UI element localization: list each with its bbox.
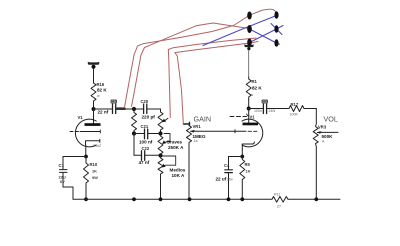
red annotation wires	[125, 9, 277, 123]
node cathode junction V1b	[240, 155, 244, 159]
wire C20 corner down	[160, 109, 162, 112]
resistor R17	[289, 106, 304, 112]
node R10 ground	[84, 197, 88, 201]
svg-text:1a: 1a	[194, 139, 198, 143]
resistor R11	[272, 197, 288, 203]
wire blue X arm 2 (L-bot to R-mid extended)	[250, 26, 284, 43]
svg-text:27: 27	[277, 204, 281, 208]
wire cathode down	[85, 145, 87, 157]
svg-text:100 nf: 100 nf	[139, 139, 153, 144]
svg-text:w: w	[97, 94, 100, 98]
wire node B down	[133, 134, 135, 156]
tiny text 24hZ	[93, 144, 102, 148]
node plate V1a	[92, 107, 96, 111]
switch contact dots	[247, 11, 278, 47]
capacitor C4	[216, 157, 233, 200]
resistor R5	[240, 157, 245, 200]
Graves wiper loop	[164, 134, 171, 144]
svg-text:VR3: VR3	[318, 125, 327, 130]
contact L3	[247, 39, 252, 47]
svg-text:R10: R10	[90, 162, 98, 167]
tube V1b cathode	[242, 142, 254, 149]
node orphan bus dot	[132, 197, 136, 201]
tube V1a grid	[70, 130, 100, 133]
wire red C (treble wiper to switch L-bot overshoot)	[168, 38, 256, 118]
wire supply to R16	[93, 69, 95, 82]
blue annotation wires	[203, 16, 283, 46]
svg-text:24N: 24N	[269, 109, 276, 113]
wire cathode down	[241, 149, 243, 157]
svg-text:V1: V1	[250, 115, 256, 120]
svg-text:V1: V1	[78, 115, 84, 120]
svg-text:100n: 100n	[254, 109, 262, 113]
wire R17 to VOL	[304, 108, 316, 110]
svg-text:22 nf: 22 nf	[98, 110, 109, 115]
svg-text:C1: C1	[59, 163, 65, 168]
svg-text:Medios: Medios	[170, 167, 186, 172]
GAIN title	[194, 115, 212, 124]
svg-text:100K: 100K	[290, 113, 299, 117]
contact R3	[274, 39, 278, 47]
label Medios 10K A	[170, 167, 186, 178]
wire node to C9	[94, 108, 113, 110]
contact L1	[247, 12, 252, 20]
wire blue long diagonal (R-top to mid circuit)	[203, 16, 277, 46]
GAIN wiper	[191, 130, 195, 133]
svg-text:1K: 1K	[246, 169, 251, 174]
node cathode junction	[84, 155, 88, 159]
wire red D (GAIN top to switch L-bot)	[175, 42, 258, 124]
treble wiper	[164, 118, 169, 121]
svg-text:220 pf: 220 pf	[142, 114, 156, 119]
potentiometer treble (z1)	[158, 112, 163, 134]
wire blue X arm 1 (L-mid to R-bot)	[250, 29, 280, 44]
node plate V1b	[247, 107, 251, 111]
supply terminal left	[88, 62, 99, 69]
contact R2	[274, 25, 278, 33]
svg-text:C3: C3	[263, 100, 267, 104]
tube V1b plate	[248, 109, 250, 124]
wire R1 to plate node	[248, 100, 250, 109]
tube V1a circle	[75, 119, 96, 147]
capacitor C3	[262, 100, 276, 114]
wire red A (C9 node to switch L-top)	[125, 17, 248, 108]
svg-text:Graves: Graves	[167, 139, 183, 144]
svg-text:500K: 500K	[322, 134, 334, 139]
svg-text:R1: R1	[252, 79, 258, 84]
wire red hook (L-top to R-top)	[252, 9, 277, 14]
label R16 82K	[97, 82, 108, 98]
tone stack: slope resistor	[132, 109, 137, 134]
contact R1	[274, 11, 278, 19]
node VOL ground	[314, 197, 318, 201]
svg-text:R16: R16	[97, 82, 105, 87]
wire C9 to tone node (with dark blob)	[116, 108, 134, 110]
VOL wiper	[317, 131, 321, 133]
potentiometer Graves (z2)	[158, 136, 163, 156]
wire C1 to bus	[63, 187, 73, 199]
wire GAIN wiper to V1b grid	[194, 130, 246, 133]
wire to C1	[63, 156, 86, 158]
svg-text:9W: 9W	[92, 175, 98, 180]
resistor R10	[84, 157, 89, 200]
wire R16 to plate node	[93, 103, 95, 109]
label Graves 250K A	[167, 139, 185, 150]
svg-text:VR1: VR1	[193, 124, 202, 129]
resistor R1	[246, 77, 251, 100]
svg-text:82 K: 82 K	[97, 88, 107, 93]
wire red B (tone node to switch L-mid)	[132, 23, 248, 107]
tube V1a plate	[93, 109, 95, 124]
VOL title	[324, 115, 338, 124]
wire plate node to C3	[249, 108, 263, 110]
wire blue X short stroke at R-mid	[271, 24, 282, 35]
svg-text:6V: 6V	[60, 179, 65, 184]
svg-text:1K: 1K	[92, 169, 97, 174]
potentiometer VR3 VOL	[313, 109, 318, 200]
node Medios ground	[159, 197, 163, 201]
svg-text:250K A: 250K A	[168, 145, 184, 150]
Medios wiper loop	[163, 156, 176, 167]
svg-text:C9: C9	[112, 100, 116, 104]
node C22 right	[158, 153, 162, 157]
svg-text:C22: C22	[142, 146, 150, 151]
resistor R16	[91, 81, 96, 103]
svg-text:w: w	[251, 93, 254, 97]
svg-text:47 nf: 47 nf	[139, 160, 150, 165]
node A top of tone stack	[132, 107, 136, 111]
svg-text:R17: R17	[291, 102, 299, 107]
contact L2	[247, 25, 252, 33]
node B	[132, 131, 136, 135]
wire to C4	[229, 156, 243, 158]
node C4 ground	[227, 197, 231, 201]
capacitor C20	[134, 99, 161, 119]
wire supply to R1	[248, 50, 250, 77]
svg-text:25v: 25v	[227, 177, 233, 181]
svg-text:R5: R5	[245, 162, 251, 167]
svg-text:10K A: 10K A	[172, 173, 186, 178]
capacitor C9	[111, 100, 118, 114]
node GAIN ground	[188, 197, 192, 201]
svg-text:R11: R11	[274, 193, 280, 197]
capacitor C22	[134, 146, 161, 165]
svg-text:C20: C20	[141, 99, 149, 104]
svg-text:24hZ: 24hZ	[93, 144, 102, 148]
dashed half-tube marker	[230, 114, 248, 117]
svg-text:22 uf: 22 uf	[216, 177, 227, 182]
wire VOL wiper output	[321, 131, 338, 133]
svg-text:C21: C21	[141, 124, 149, 129]
ground bus right segment	[288, 198, 340, 200]
potentiometer VR1 GAIN	[187, 126, 192, 200]
wire gain top terminal	[184, 122, 190, 125]
tube V1b circle	[242, 119, 263, 147]
tube V1a cathode	[86, 139, 100, 145]
capacitor C1	[59, 157, 68, 188]
supply terminal right	[245, 45, 254, 50]
capacitor C21	[134, 124, 161, 144]
ground bus left segment	[73, 198, 272, 200]
potentiometer Medios (z3)	[158, 158, 163, 199]
wire C3 to R17	[267, 108, 289, 110]
node C21 right	[158, 131, 162, 135]
svg-text:C4: C4	[224, 163, 230, 168]
svg-text:VOL: VOL	[324, 115, 338, 124]
label 22 nf	[98, 110, 109, 115]
svg-text:GAIN: GAIN	[194, 115, 212, 124]
node R5 ground	[240, 197, 244, 201]
svg-text:82 K: 82 K	[252, 86, 262, 91]
